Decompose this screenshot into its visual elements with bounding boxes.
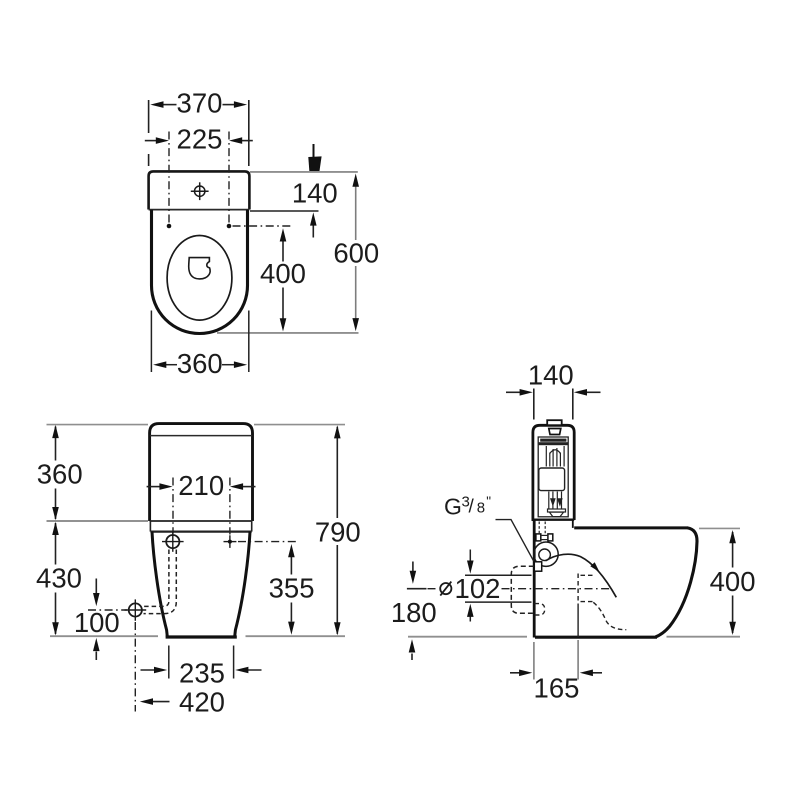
hinge hole dots	[167, 224, 172, 229]
svg-text:180: 180	[391, 597, 437, 628]
o-symbol	[440, 583, 451, 594]
svg-text:790: 790	[315, 516, 361, 547]
tank outline (side)	[533, 425, 574, 521]
floor gray right (side)	[667, 636, 741, 638]
hidden supply pipe (dashed)	[144, 550, 177, 614]
svg-text:430: 430	[36, 563, 82, 594]
supply elbow circles	[534, 542, 558, 566]
svg-text:165: 165	[534, 673, 580, 704]
svg-text:420: 420	[179, 687, 225, 718]
dim 140 (plan, tank depth)	[250, 210, 319, 212]
svg-text:140: 140	[292, 177, 338, 208]
dim 165	[534, 640, 578, 680]
dim 600 (plan)	[355, 185, 357, 240]
svg-text:400: 400	[710, 566, 756, 597]
dim 400 (plan)	[282, 240, 284, 262]
lower cage	[549, 492, 562, 509]
hidden pipe dashes right of wall	[578, 574, 626, 630]
float box	[539, 468, 565, 491]
bowl right profile	[656, 528, 698, 637]
hidden outlet connector (dashed)	[511, 566, 534, 613]
tank inner wall	[538, 437, 568, 517]
tank bottom line (plan)	[149, 209, 250, 211]
svg-text:8: 8	[477, 500, 485, 517]
tank bottom line	[150, 520, 253, 522]
water spot shape	[189, 258, 210, 279]
bowl bottom (side)	[535, 636, 657, 639]
gray reference line (tank top extended)	[250, 171, 358, 173]
gray reference line (bowl front extended)	[217, 332, 359, 334]
hidden outlet tab (dashed)	[535, 604, 545, 615]
flow arrowhead	[590, 562, 599, 572]
valve head bars	[540, 439, 566, 442]
svg-text:355: 355	[269, 573, 315, 604]
trap flush curve	[546, 554, 617, 597]
G3/8 leader line	[496, 520, 534, 562]
lid crosshair symbol	[191, 182, 209, 200]
dash-dot inlet vertical (down to 420)	[134, 622, 136, 712]
cross marker right (355 ref)	[224, 535, 237, 548]
valve base	[548, 509, 566, 512]
G3/8 stub	[534, 562, 541, 571]
supply nut	[536, 534, 541, 541]
tank lid seam	[150, 435, 253, 437]
base line	[166, 635, 237, 638]
supply shank below tank (dashed thread)	[539, 522, 545, 534]
fill valve circle (front)	[166, 535, 179, 548]
dim 360 (front)	[55, 427, 57, 461]
svg-text:102: 102	[455, 573, 501, 604]
wall supply marker (thick arrow)	[313, 144, 315, 157]
svg-text:G: G	[444, 494, 462, 520]
dim 370	[149, 100, 249, 166]
valve cage	[546, 446, 564, 467]
dim 420	[153, 701, 170, 703]
svg-text:": "	[486, 494, 491, 509]
svg-text:235: 235	[179, 658, 225, 689]
svg-text:370: 370	[177, 88, 223, 119]
svg-text:140: 140	[528, 359, 574, 390]
dash-dot inlet horizontal	[88, 609, 127, 611]
svg-text:360: 360	[177, 348, 223, 379]
bowl outer outline (plan)	[152, 210, 248, 334]
bowl shelf top (side)	[574, 526, 688, 529]
hinge centerlines dash-dot vertical	[169, 132, 291, 227]
ext gray 400 top	[699, 527, 740, 529]
flush button on lid	[547, 420, 562, 425]
dim 210 (in tank)	[147, 486, 256, 488]
tank bottom edge (side)	[533, 519, 574, 521]
dim 235	[141, 646, 262, 679]
svg-text:400: 400	[260, 258, 306, 289]
bowl right side (front)	[235, 532, 250, 637]
floor gray line left	[50, 635, 158, 637]
dim 360 (plan)	[151, 311, 248, 373]
svg-text:600: 600	[333, 237, 379, 268]
ext tank-bottom left	[47, 520, 149, 522]
dim 225	[145, 140, 253, 142]
dash-dot ext for 210	[173, 478, 230, 535]
dim o102	[465, 550, 532, 622]
svg-text:225: 225	[177, 124, 223, 155]
dim 790 (front)	[336, 427, 338, 518]
tank outline (front)	[150, 424, 253, 521]
vertical outlet centerline solid	[577, 604, 579, 637]
dim 355	[290, 557, 292, 575]
inlet circle (front)	[129, 603, 142, 616]
outlet centerline dash-dot	[428, 588, 438, 590]
side joins tank-bowl	[149, 521, 151, 532]
svg-text:/: /	[469, 496, 475, 517]
svg-text:360: 360	[37, 458, 83, 489]
dim 140 (side)	[506, 389, 601, 420]
dim 430 (front)	[55, 523, 57, 565]
dim 400 (side)	[732, 532, 734, 568]
ext gray tank-top right	[254, 424, 345, 426]
ext gray tank-top left	[47, 424, 149, 426]
floor gray line right	[246, 635, 346, 637]
dash-dot 355 ref line	[238, 541, 297, 543]
bowl top edge	[150, 530, 251, 532]
seat oval	[167, 235, 232, 320]
floor gray left (side)	[408, 636, 527, 638]
bowl left side (front)	[152, 532, 167, 637]
dim 180	[412, 562, 414, 572]
tank rectangle (plan)	[149, 171, 250, 209]
svg-text:210: 210	[178, 470, 224, 501]
svg-text:100: 100	[74, 607, 120, 638]
dim 100	[95, 579, 97, 594]
tank front edge continues to floor	[533, 520, 536, 638]
